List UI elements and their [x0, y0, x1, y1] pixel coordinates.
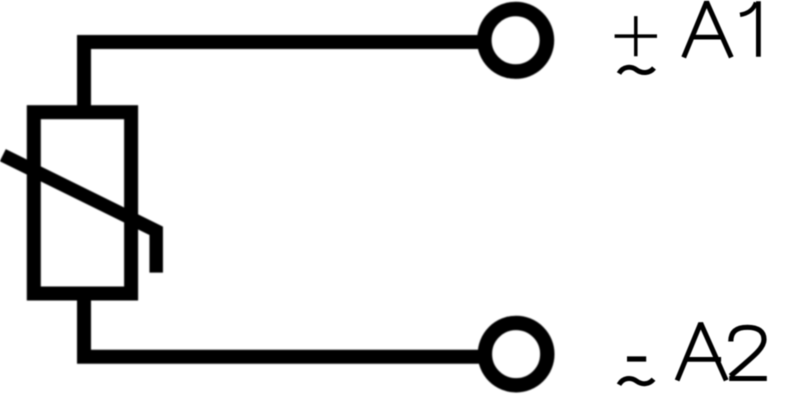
polarity symbol plus (DC) at A1 — [615, 16, 657, 56]
varistor body — [34, 112, 131, 293]
terminal A1 — [484, 9, 547, 72]
wire bottom: varistor to terminal A2 — [84, 294, 480, 357]
label A1 — [684, 1, 759, 57]
wire top: varistor to terminal A1 — [84, 42, 479, 119]
polarity symbol minus (DC) at A2 — [627, 356, 646, 361]
polarity symbol tilde (AC) at A1 — [619, 67, 654, 73]
polarity symbol tilde (AC) at A2 — [619, 378, 654, 384]
varistor diagonal stroke — [3, 155, 156, 272]
terminal A2 — [485, 323, 547, 385]
label A2 — [677, 323, 767, 380]
